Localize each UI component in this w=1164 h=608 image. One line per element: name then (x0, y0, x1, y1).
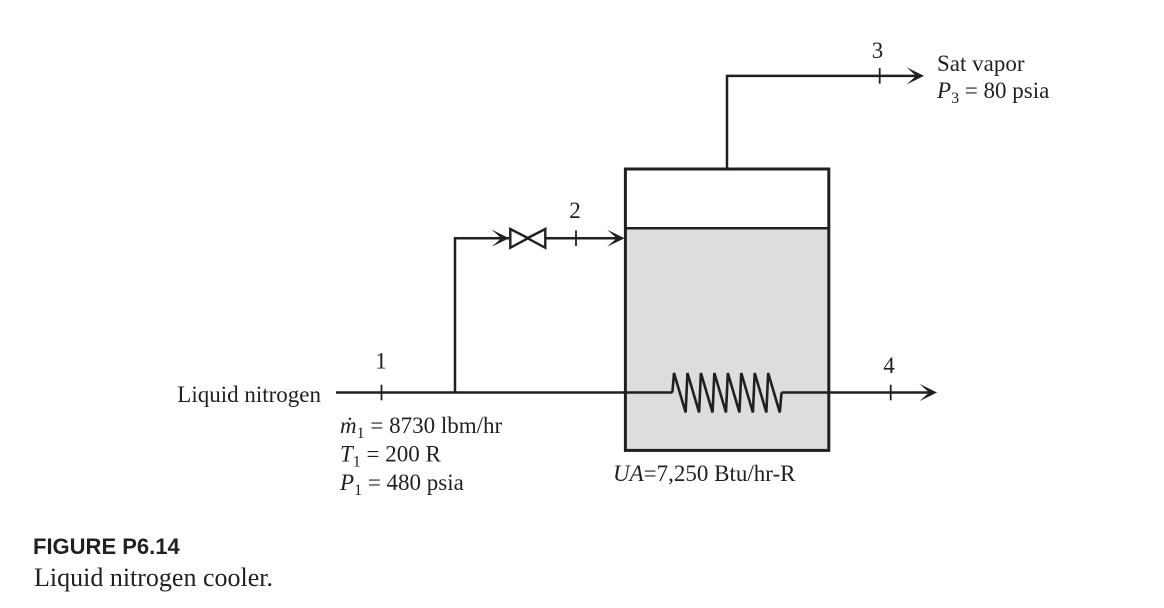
tank vessel body (625, 169, 828, 450)
wire: main inlet line (liquid nitrogen feed) (336, 391, 672, 394)
node 4 tick (890, 385, 892, 401)
svg-text:2: 2 (569, 198, 581, 223)
tank border (625, 169, 828, 450)
arrowhead stream 3 (907, 67, 925, 84)
arrowhead into tank (607, 230, 625, 247)
svg-text:UA=7,250 Btu/hr-R: UA=7,250 Btu/hr-R (613, 461, 796, 486)
svg-text:Sat vapor: Sat vapor (937, 51, 1025, 76)
svg-text:ṁ1 = 8730 lbm/hr: ṁ1 = 8730 lbm/hr (340, 413, 503, 442)
wire: outlet line to node 4 (829, 391, 931, 394)
svg-text:Liquid nitrogen: Liquid nitrogen (177, 382, 321, 407)
wire: branch vertical riser to valve (455, 238, 509, 392)
wire: valve outlet to tank (545, 237, 618, 240)
node 2 tick (575, 230, 577, 246)
svg-text:P3 = 80 psia: P3 = 80 psia (936, 78, 1049, 107)
coil (heat-exchanger spring) inside tank (672, 373, 781, 413)
svg-text:3: 3 (872, 38, 884, 63)
liquid surface line (625, 227, 828, 230)
valve V1 (510, 229, 545, 248)
wire: coil outlet inside tank (782, 391, 829, 394)
svg-text:P1 = 480 psia: P1 = 480 psia (339, 470, 464, 499)
svg-text:T1 = 200 R: T1 = 200 R (340, 442, 442, 471)
liquid (gray fill) inside tank (625, 228, 828, 450)
node 1 tick (381, 385, 383, 401)
wire: vapor outlet riser from tank top (727, 76, 918, 169)
svg-text:Liquid nitrogen cooler.: Liquid nitrogen cooler. (34, 563, 273, 592)
svg-text:4: 4 (883, 353, 895, 378)
svg-text:1: 1 (375, 349, 387, 374)
arrowhead stream 4 (920, 384, 938, 401)
svg-text:FIGURE P6.14: FIGURE P6.14 (33, 534, 180, 559)
arrowhead into valve (492, 230, 510, 247)
node 3 tick (879, 68, 881, 84)
